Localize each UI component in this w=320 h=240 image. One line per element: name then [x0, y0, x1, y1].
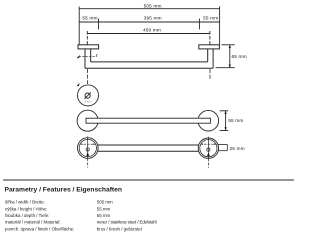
svg-text:Parametry / Features / Eigensc: Parametry / Features / Eigenschaften	[5, 187, 122, 194]
tick left 55	[98, 19, 100, 30]
dim 25mm (bottom)	[217, 144, 227, 150]
svg-text:výška / height / Höhe:: výška / height / Höhe:	[5, 206, 47, 211]
svg-text:povrch. úprava / finish / Ober: povrch. úprava / finish / Oberfläche:	[5, 226, 74, 231]
table row 1	[5, 200, 157, 232]
centerline below right post	[209, 69, 211, 80]
dimension line 450 mm	[87, 33, 210, 35]
svg-text:65 mm: 65 mm	[232, 54, 247, 60]
svg-text:8 mm: 8 mm	[85, 99, 91, 103]
extension line left	[78, 7, 80, 45]
svg-text:505 mm: 505 mm	[144, 3, 162, 9]
bar top edge (top view)	[91, 61, 208, 63]
centerline right post upper	[209, 31, 211, 45]
svg-text:55 mm: 55 mm	[82, 16, 97, 22]
leader arrowhead left stem	[77, 55, 80, 58]
bottom view left rosette outer	[78, 138, 99, 159]
svg-text:nerez / stainless steel / Edel: nerez / stainless steel / Edelstahl	[97, 220, 157, 225]
post stem left	[84, 49, 86, 68]
dim 65mm vertical line	[229, 45, 231, 68]
bar (bottom view)	[98, 144, 198, 146]
leader arrowhead at detail circle	[76, 83, 79, 86]
wall plate left (top view)	[78, 45, 99, 49]
svg-text:šířka / width / Breite:: šířka / width / Breite:	[5, 200, 45, 205]
svg-text:55 mm: 55 mm	[228, 118, 243, 124]
diameter symbol in detail	[85, 93, 90, 98]
left rosette screw arrow	[86, 152, 89, 156]
svg-text:450 mm: 450 mm	[143, 27, 161, 33]
leader line at left stem	[79, 55, 97, 57]
svg-text:65 mm: 65 mm	[97, 213, 111, 218]
bottom view left rosette inner	[79, 139, 96, 156]
dim 65mm top tick	[222, 44, 235, 46]
svg-text:55 mm: 55 mm	[97, 206, 111, 211]
front view left rosette	[77, 110, 98, 131]
dim 65mm arrows	[229, 45, 231, 48]
centerline left post upper	[86, 31, 88, 45]
detail circle	[78, 85, 99, 106]
dim 65mm bottom tick	[216, 67, 235, 69]
tick right 55	[198, 19, 200, 30]
right rosette screw arrow	[207, 152, 210, 156]
svg-text:hloubka / depth / Tiefe:: hloubka / depth / Tiefe:	[5, 213, 49, 218]
bottom view right rosette outer	[198, 138, 218, 158]
dimension line 505 mm	[79, 8, 219, 10]
svg-text:materiál / material / Material: materiál / material / Material:	[5, 220, 60, 225]
centerline below left post	[86, 69, 88, 84]
svg-text:25 mm: 25 mm	[230, 146, 245, 152]
bar bottom edge (top view)	[85, 67, 213, 69]
svg-text:505 mm: 505 mm	[97, 200, 113, 205]
dimension line 55/395/55	[79, 21, 219, 23]
bar (front view)	[86, 118, 210, 123]
bottom view right rosette inner	[200, 140, 217, 157]
left rosette crosshair	[80, 137, 96, 168]
post stem right	[207, 49, 209, 62]
table rule	[3, 179, 294, 181]
svg-text:55 mm: 55 mm	[203, 16, 218, 22]
svg-text:395 mm: 395 mm	[144, 16, 162, 22]
svg-text:brus / brush / gebürstet: brus / brush / gebürstet	[97, 226, 143, 231]
dim 55mm (front)	[220, 111, 229, 131]
wall plate right (top view)	[199, 45, 220, 49]
front view right rosette	[198, 110, 219, 131]
extension line right	[219, 6, 221, 45]
right rosette crosshair	[201, 137, 217, 168]
